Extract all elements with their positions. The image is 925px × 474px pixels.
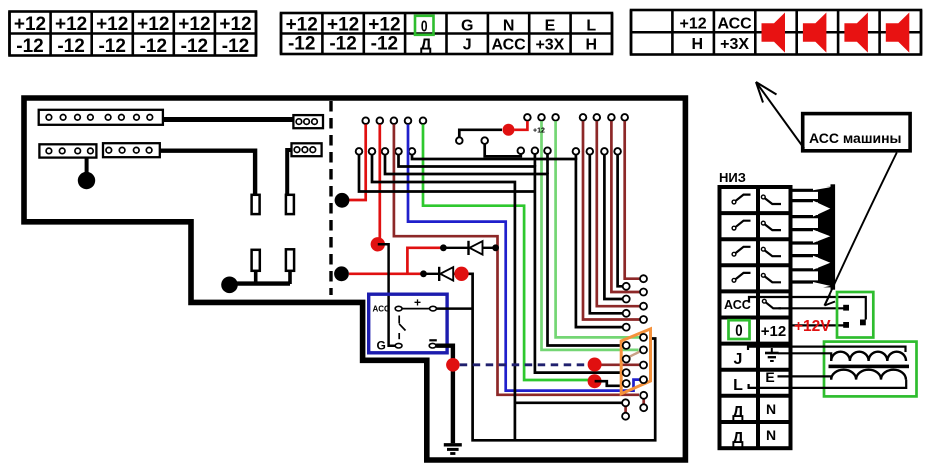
svg-text:L: L	[733, 377, 743, 394]
K1 pad 3	[860, 320, 866, 326]
connector strip X3 (4-pin)	[39, 144, 96, 157]
svg-text:J: J	[463, 37, 472, 54]
wire +12 to relay	[791, 324, 844, 326]
wire L to coil	[749, 380, 907, 388]
fuse F4	[286, 249, 294, 270]
junction blob J5	[334, 266, 349, 281]
terminal row B circles	[356, 148, 416, 155]
fuse F3	[252, 250, 260, 271]
svg-text:+: +	[414, 296, 421, 310]
green antenna box in T2	[415, 16, 434, 35]
svg-text:N: N	[766, 427, 776, 443]
wire blue long	[408, 124, 639, 390]
svg-text:+12: +12	[219, 14, 251, 35]
svg-text:-12: -12	[98, 36, 125, 57]
core bar	[829, 365, 910, 369]
svg-text:НИЗ: НИЗ	[719, 170, 746, 185]
signal table T2 labels	[286, 15, 597, 55]
svg-text:Н: Н	[586, 37, 598, 54]
wire black b5	[359, 155, 535, 191]
U1 contact c1	[395, 306, 402, 311]
transformer green box	[824, 342, 917, 397]
red speaker SP2	[803, 13, 827, 53]
U1 contact c2	[430, 306, 437, 311]
svg-text:J: J	[734, 351, 743, 368]
wire ACC top to relay	[749, 297, 866, 320]
red speaker SP3	[844, 13, 868, 53]
orange connector CN1	[621, 329, 650, 394]
relay box U1	[369, 294, 447, 353]
connector X5 (3-pin)	[292, 143, 322, 156]
terminal C2	[481, 137, 488, 144]
red speaker SP4	[886, 13, 910, 53]
svg-text:+12V: +12V	[794, 318, 831, 335]
wire J to coil top	[748, 347, 906, 352]
label box ACC mashiny	[803, 114, 910, 151]
wire FH to D1	[515, 121, 528, 130]
wire brown r1	[625, 121, 640, 279]
svg-text:+12: +12	[178, 14, 210, 35]
fuse F1	[252, 195, 260, 214]
arrow into ACC switch	[825, 153, 897, 306]
terminal C3	[518, 147, 525, 154]
inline fuse FH red	[503, 124, 515, 136]
svg-text:L: L	[586, 18, 596, 35]
junction blob J1	[78, 172, 95, 189]
wire C2 to C3	[485, 144, 521, 156]
junction blob J7 red	[446, 358, 460, 372]
svg-text:E: E	[545, 18, 556, 35]
wire branch to pin	[515, 401, 622, 404]
junction blob J2	[221, 277, 238, 294]
svg-text:E: E	[765, 369, 774, 385]
wire X4 to fuse F1	[160, 151, 255, 196]
svg-text:+3Х: +3Х	[535, 37, 564, 54]
svg-text:+3Х: +3Х	[720, 36, 749, 53]
wire black b1	[412, 155, 623, 327]
wire light green 3	[556, 121, 640, 337]
wire black r3	[590, 155, 623, 313]
terminal row E circles	[580, 114, 628, 121]
U1 minus label	[429, 339, 437, 341]
wire green long	[423, 124, 588, 380]
junction blob J9 red	[588, 374, 602, 388]
wire black b3	[385, 155, 622, 345]
wire black b4	[372, 155, 515, 440]
wire brown J8 to pin	[602, 363, 640, 366]
junction blob J3	[335, 193, 350, 208]
svg-text:-12: -12	[181, 36, 208, 57]
svg-text:-12: -12	[222, 36, 249, 57]
dashed divider line	[329, 101, 332, 295]
svg-text:Н: Н	[692, 36, 704, 53]
U1 switch lever	[399, 316, 405, 340]
fuse F2	[286, 195, 294, 214]
wire C1 to fuse FH	[459, 130, 502, 137]
svg-text:-12: -12	[288, 34, 315, 55]
wire brown r3	[597, 121, 640, 306]
switch table grid	[720, 187, 791, 448]
junction blob J8 red	[588, 358, 602, 372]
wire ACC switch to relay	[779, 307, 844, 309]
svg-text:+12: +12	[96, 14, 128, 35]
black speaker cones	[818, 187, 831, 288]
speaker cone notches	[813, 184, 830, 289]
wire black r2	[604, 155, 622, 299]
svg-text:+12: +12	[680, 16, 707, 33]
ground symbol row7	[765, 348, 779, 361]
terminal C1	[456, 137, 463, 144]
wire X1 to X2	[163, 117, 294, 122]
wire black r1	[618, 155, 623, 286]
svg-text:G: G	[377, 339, 386, 353]
signal table T2 grid	[281, 13, 612, 54]
svg-text:0: 0	[421, 17, 428, 35]
svg-text:АСС: АСС	[491, 37, 526, 54]
wire red diode row	[349, 248, 443, 274]
svg-text:-12: -12	[371, 34, 398, 55]
wire stub F1	[575, 155, 578, 160]
svg-text:-12: -12	[16, 36, 43, 57]
svg-text:Д: Д	[732, 430, 744, 447]
wire brown long	[394, 124, 639, 394]
terminal C5	[544, 147, 551, 154]
wire X5 to fuse F2	[287, 150, 291, 195]
svg-text:-12: -12	[57, 36, 84, 57]
wire bottom rect	[462, 274, 656, 441]
svg-text:+12: +12	[14, 14, 46, 35]
svg-text:+12: +12	[286, 15, 318, 36]
relay K1 green box	[837, 292, 873, 338]
K1 pad 1	[843, 305, 849, 311]
terminal C4	[532, 147, 539, 154]
svg-text:0: 0	[735, 322, 742, 341]
wire red to blob J4	[378, 124, 381, 239]
wire E to coil	[778, 376, 832, 379]
svg-text:N: N	[766, 401, 776, 417]
wire red to node J3	[349, 124, 366, 200]
svg-text:N: N	[503, 18, 515, 35]
speaker feed wires	[789, 190, 832, 282]
wire stub C4	[534, 154, 537, 166]
wire light green 2	[542, 121, 639, 350]
wire plus out	[436, 307, 473, 310]
svg-text:+12: +12	[368, 15, 400, 36]
svg-text:G: G	[461, 18, 473, 35]
svg-text:+12: +12	[761, 323, 786, 340]
wire ground lead	[436, 346, 453, 444]
terminal D1 (+12 feed)	[524, 114, 531, 121]
svg-text:-12: -12	[140, 36, 167, 57]
svg-text:+12: +12	[327, 15, 359, 36]
pin pair lower right	[640, 392, 647, 411]
U1 wire c1-c2	[402, 308, 430, 310]
svg-text:+12: +12	[137, 14, 169, 35]
U1 contact c4	[429, 343, 436, 348]
wire black b2	[399, 155, 623, 373]
node dot d1	[420, 270, 427, 277]
ACC row switch	[762, 299, 781, 308]
junction blob J4 red	[371, 237, 385, 251]
switch symbols rows 1-4	[732, 195, 781, 283]
power table T1 grid	[10, 12, 257, 56]
fuse F3 lead	[254, 271, 258, 284]
wire gnd to coil	[778, 353, 831, 361]
node dot d3	[492, 244, 499, 251]
connector strip X4 (4-pin)	[103, 143, 160, 157]
wire tan link	[628, 351, 641, 357]
svg-text:-12: -12	[329, 34, 356, 55]
black speaker bar	[831, 184, 836, 289]
dashed control wire	[460, 363, 589, 366]
K1 pad 2	[843, 322, 849, 328]
main unit outline	[24, 98, 685, 460]
pin pair lower left	[622, 399, 629, 419]
connector X2 (3-pin)	[293, 115, 323, 128]
fuse F4 lead	[288, 271, 292, 284]
svg-text:+12: +12	[533, 128, 545, 135]
diode D1	[443, 241, 496, 255]
power table T1 labels	[14, 14, 252, 57]
wire X3 to junction	[85, 158, 89, 173]
wire J4 to relay	[378, 244, 395, 345]
svg-text:АСС: АСС	[724, 298, 751, 312]
pin column right	[640, 275, 647, 383]
red speaker SP1	[762, 13, 786, 53]
diode D2	[424, 267, 459, 281]
svg-text:АСС: АСС	[717, 16, 752, 33]
svg-text:ACC: ACC	[373, 305, 391, 314]
svg-text:Д: Д	[420, 37, 432, 54]
svg-text:АСС машины: АСС машины	[809, 130, 902, 146]
wire brown r4	[583, 121, 639, 319]
terminal row A circles	[362, 117, 426, 124]
wire stub C5	[546, 154, 549, 174]
svg-text:+12: +12	[55, 14, 87, 35]
terminal D2 green	[538, 114, 545, 121]
arrow to T3	[756, 82, 804, 149]
terminal D3 green	[552, 114, 559, 121]
pin column left	[623, 283, 630, 387]
wire J9 jog to pin	[595, 381, 622, 386]
green box 0 cell	[729, 320, 750, 339]
node dot d2	[440, 244, 447, 251]
wire brown r2	[611, 121, 639, 292]
terminal row F circles	[573, 148, 621, 155]
wire fuse bus	[230, 281, 291, 285]
primary coil	[831, 352, 906, 361]
svg-text:Д: Д	[732, 404, 744, 421]
junction blob J6 red	[454, 267, 468, 281]
ground symbol	[444, 445, 462, 454]
secondary coil	[831, 370, 906, 380]
U1 contact c3	[395, 343, 402, 348]
speaker table T3 grid	[631, 10, 921, 55]
connector strip X1 (8-pin)	[39, 110, 163, 125]
